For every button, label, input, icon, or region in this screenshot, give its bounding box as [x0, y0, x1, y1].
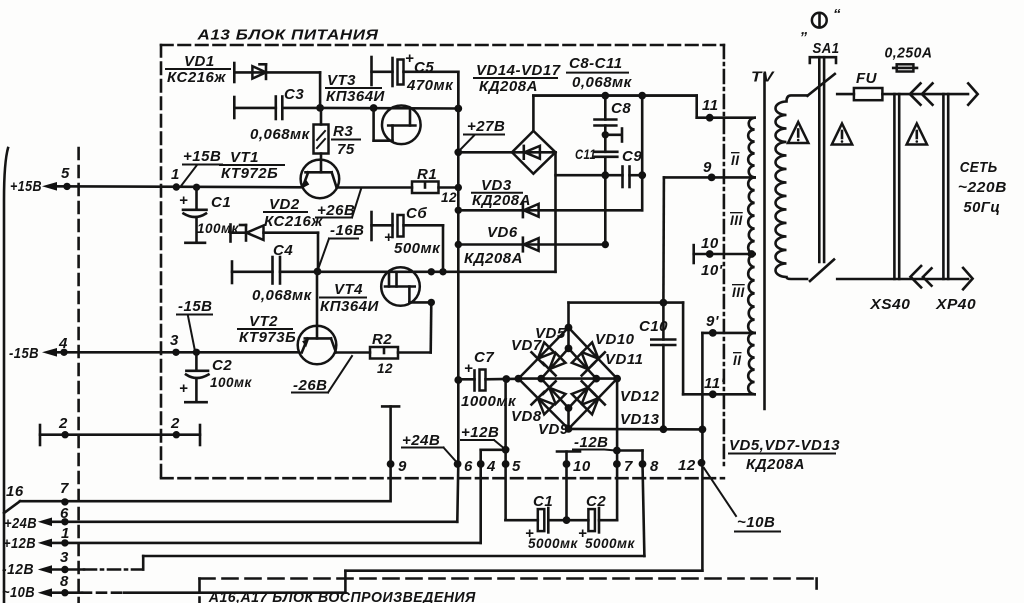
- resistor R3: [314, 125, 329, 154]
- svg-text:VD7: VD7: [511, 337, 542, 354]
- wire VD3 right riser: [641, 96, 644, 211]
- wire -15V rail: [50, 351, 299, 354]
- svg-text:9: 9: [398, 458, 407, 475]
- svg-text:7: 7: [60, 480, 69, 497]
- svg-text:12: 12: [441, 190, 457, 205]
- svg-text:16: 16: [6, 483, 24, 500]
- primary winding coil: [776, 95, 808, 279]
- svg-text:1: 1: [61, 525, 70, 542]
- wire line ~10V (pin 8): [50, 591, 82, 594]
- svg-text:-26В: -26В: [293, 377, 328, 394]
- svg-text:R3: R3: [333, 123, 353, 140]
- diode VD9 inner bottom-left: [543, 381, 567, 405]
- svg-text:СЕТЬ: СЕТЬ: [960, 159, 998, 176]
- svg-text:VТ1: VТ1: [230, 149, 259, 166]
- warning triangle 2: [832, 124, 852, 145]
- svg-text:C7: C7: [474, 349, 494, 366]
- svg-text:КТ973Б: КТ973Б: [239, 329, 296, 346]
- svg-text:4: 4: [486, 458, 496, 475]
- capacitor C1 5000mk: [538, 509, 545, 531]
- capacitor C4: [231, 262, 234, 284]
- svg-text:9: 9: [703, 159, 712, 176]
- svg-text:75: 75: [337, 141, 355, 158]
- wire bridge2 bottom: [569, 428, 703, 431]
- svg-text:7: 7: [624, 458, 633, 475]
- capacitor C9: [601, 171, 609, 179]
- node +27V: [454, 148, 462, 156]
- svg-text:2: 2: [170, 415, 180, 432]
- svg-text:R1: R1: [417, 166, 437, 183]
- svg-text:II: II: [731, 153, 740, 168]
- pin 11 path: [533, 94, 696, 97]
- svg-text:XP40: XP40: [935, 296, 976, 313]
- svg-text:VD11: VD11: [605, 351, 643, 368]
- svg-text:С11: С11: [575, 147, 596, 162]
- resistor R2: [336, 351, 370, 354]
- svg-text:~10В: ~10В: [737, 514, 775, 531]
- svg-text:C10: C10: [639, 318, 668, 335]
- svg-text:500мк: 500мк: [394, 240, 441, 257]
- bridge2 diagonals: [518, 377, 617, 380]
- svg-text:C2: C2: [212, 357, 232, 374]
- svg-text:C4: C4: [273, 242, 293, 259]
- svg-text:50Гц: 50Гц: [963, 199, 1000, 216]
- transistor VT1 KT972B: [301, 160, 340, 199]
- svg-text:C8: C8: [611, 100, 631, 117]
- svg-text:XS40: XS40: [869, 296, 910, 313]
- wire bridge1 top to C8 bus: [532, 96, 535, 131]
- svg-text:С8-С11: С8-С11: [569, 55, 623, 72]
- svg-text:FU: FU: [856, 70, 878, 87]
- svg-text:12: 12: [678, 457, 696, 474]
- zener VD2: [229, 225, 232, 242]
- diode VD3: [455, 207, 462, 214]
- svg-text:3: 3: [170, 332, 179, 349]
- svg-text:470мк: 470мк: [406, 77, 454, 94]
- node C8-C11 stub: [602, 131, 609, 138]
- wire 11' riser: [682, 303, 685, 395]
- svg-text:+: +: [464, 360, 473, 377]
- pin 9 stub: [382, 405, 399, 408]
- svg-text:C9: C9: [622, 148, 642, 165]
- pin 12: [701, 333, 704, 571]
- svg-text:+12В: +12В: [461, 424, 499, 441]
- resistor R1: [412, 182, 439, 194]
- svg-text:0,068мк: 0,068мк: [250, 126, 311, 143]
- svg-text:C5: C5: [414, 59, 434, 76]
- svg-text:0,068мк: 0,068мк: [252, 287, 313, 304]
- switch SA1 upper blade: [807, 74, 834, 96]
- pin 6: [454, 460, 462, 468]
- svg-text:-16В: -16В: [330, 222, 365, 239]
- svg-text:2: 2: [58, 415, 68, 432]
- svg-text:VD13: VD13: [620, 411, 660, 428]
- svg-text:КД208А: КД208А: [746, 456, 805, 473]
- pin 11' path: [683, 393, 755, 396]
- svg-text:6: 6: [60, 505, 69, 522]
- capacitor C11: [595, 151, 618, 154]
- arrow right bottom: [963, 268, 973, 289]
- svg-text:+24В: +24В: [402, 432, 440, 449]
- svg-text:9': 9': [706, 313, 719, 330]
- svg-text:SA1: SA1: [813, 40, 840, 57]
- svg-text:10: 10: [701, 235, 719, 252]
- transistor VT4 KP364I (FET): [381, 267, 420, 306]
- winding II lower (9p-11p): [748, 333, 754, 394]
- block A16,A17 dashed border: [200, 577, 817, 580]
- node C7 junction on main bus: [454, 376, 462, 384]
- capacitor C5: [370, 57, 373, 85]
- svg-text:~220В: ~220В: [958, 179, 1007, 196]
- svg-text:0,068мк: 0,068мк: [572, 74, 633, 91]
- svg-text:VD10: VD10: [595, 331, 635, 348]
- wire C1 C2 5000 line: [505, 519, 537, 522]
- svg-text:VD9: VD9: [538, 421, 569, 438]
- diode VD5 outer top-left: [531, 341, 555, 365]
- wire pins 2-2: [40, 433, 200, 436]
- warning triangle 1: [788, 122, 808, 143]
- wire +27V to bridge1: [458, 151, 512, 154]
- svg-text:6: 6: [464, 458, 473, 475]
- wire main vertical bus: [457, 72, 460, 464]
- svg-text:+27В: +27В: [467, 118, 505, 135]
- inner diamond: [541, 348, 596, 408]
- svg-text:III: III: [732, 285, 745, 300]
- svg-text:C3: C3: [284, 86, 304, 103]
- svg-text:1: 1: [171, 166, 180, 183]
- svg-text:VD2: VD2: [269, 196, 300, 213]
- label ~10V pointer: [704, 468, 736, 516]
- transformer core: [763, 74, 766, 409]
- diode VD13 outer bottom-right: [581, 392, 605, 416]
- capacitor C8: [601, 92, 609, 100]
- svg-text:VD5,VD7-VD13: VD5,VD7-VD13: [729, 437, 840, 454]
- capacitor C2: [195, 352, 198, 370]
- svg-text:C1: C1: [211, 194, 231, 211]
- svg-text:5000мк: 5000мк: [528, 536, 579, 551]
- svg-text:100мк: 100мк: [210, 375, 253, 390]
- switch SA1 power symbol: [812, 13, 827, 28]
- wire mid bus y=271.8: [318, 270, 556, 273]
- svg-text:“: “: [833, 6, 841, 23]
- svg-text:10: 10: [573, 458, 591, 475]
- left block dashed border: [77, 148, 80, 603]
- wire bridge2 top riser: [567, 303, 570, 328]
- wire line 7: [20, 500, 390, 503]
- diode VD7 inner top-left: [543, 351, 567, 375]
- node 3: [172, 349, 179, 356]
- pin 4: [479, 450, 482, 543]
- node C1 junction: [193, 184, 200, 191]
- svg-text:11: 11: [702, 97, 719, 114]
- left adjacent block edge: [4, 148, 8, 603]
- winding III (9-10p): [748, 177, 754, 254]
- wire line +24V (pin 6): [50, 520, 457, 523]
- svg-text:VD12: VD12: [620, 388, 660, 405]
- wire +15V rail: [50, 186, 303, 187]
- node VD2/C4/VT2 junction: [314, 268, 322, 276]
- svg-text:„: „: [800, 21, 809, 38]
- svg-text:1000мк: 1000мк: [461, 393, 517, 410]
- svg-text:C1: C1: [533, 493, 553, 510]
- svg-text:КП364И: КП364И: [320, 298, 380, 315]
- svg-text:VD14-VD17: VD14-VD17: [476, 62, 561, 79]
- svg-text:-15В: -15В: [178, 298, 213, 315]
- node 1: [173, 183, 180, 190]
- svg-text:КТ972Б: КТ972Б: [221, 165, 278, 182]
- svg-text:КД208А: КД208А: [472, 192, 531, 209]
- svg-text:~10В: ~10В: [2, 584, 35, 601]
- svg-text:КС216ж: КС216ж: [264, 213, 323, 230]
- svg-text:А13 БЛОК ПИТАНИЯ: А13 БЛОК ПИТАНИЯ: [196, 27, 379, 44]
- zener VD1: [233, 63, 236, 82]
- wire line -12V (pin 3): [50, 568, 84, 571]
- warning triangle 3: [907, 124, 927, 145]
- svg-text:8: 8: [60, 573, 69, 590]
- capacitor C6: [370, 212, 373, 240]
- svg-text:КД208А: КД208А: [464, 250, 523, 267]
- svg-text:C2: C2: [586, 493, 606, 510]
- svg-text:Сб: Сб: [406, 205, 427, 222]
- diode bridge VD14-VD17: [512, 131, 556, 174]
- winding III lower (10p-9p): [748, 254, 754, 333]
- switch SA1 lower blade: [810, 260, 834, 282]
- node -15V arrow: [42, 348, 57, 357]
- diode VD8 outer bottom-left: [531, 392, 555, 416]
- svg-text:10': 10': [701, 262, 723, 279]
- node 2 right: [173, 431, 180, 438]
- svg-text:КП364И: КП364И: [326, 88, 386, 105]
- diode VD11 inner top-right: [570, 351, 594, 375]
- svg-text:5: 5: [512, 458, 521, 475]
- wire line +12V (pin 1): [50, 542, 481, 545]
- svg-text:+12В: +12В: [3, 535, 36, 552]
- winding II (11-9): [748, 118, 754, 178]
- connector XS40 column: [893, 94, 896, 279]
- capacitor C1: [195, 187, 198, 209]
- svg-text:+: +: [179, 192, 188, 209]
- svg-text:5000мк: 5000мк: [585, 536, 636, 551]
- node 4: [60, 349, 67, 356]
- svg-text:+15В: +15В: [183, 148, 221, 165]
- svg-text:4: 4: [58, 335, 68, 352]
- pin 10 stub: [557, 450, 580, 453]
- pin 9 path: [664, 176, 755, 179]
- capacitor C2 5000mk: [567, 519, 589, 522]
- svg-text:11': 11': [704, 375, 725, 392]
- svg-text:8: 8: [650, 458, 659, 475]
- svg-text:+15В: +15В: [10, 178, 42, 195]
- arrow right top: [968, 83, 978, 104]
- A13 block dashed border: [161, 44, 724, 47]
- svg-text:+: +: [405, 50, 414, 67]
- node 2 left: [61, 431, 68, 438]
- pin 5: [504, 379, 507, 520]
- capacitor C3: [233, 97, 236, 118]
- diode bridge VD5,VD7-VD13 outer diamond: [518, 328, 617, 429]
- svg-text:+: +: [179, 380, 188, 397]
- switch SA1 bracket and linkage: [810, 57, 836, 63]
- svg-text:-15В: -15В: [9, 345, 39, 362]
- node C2 junction: [193, 349, 200, 356]
- svg-text:VТ3: VТ3: [327, 72, 356, 89]
- svg-text:12: 12: [377, 361, 393, 376]
- bridge2 corner nodes: [515, 375, 523, 383]
- node 7: [61, 498, 68, 505]
- pin 8: [617, 449, 643, 452]
- capacitor C7: [458, 378, 474, 381]
- node 5: [63, 183, 70, 190]
- node +15V arrow: [42, 182, 57, 191]
- diode VD6: [455, 241, 462, 248]
- svg-text:КС216ж: КС216ж: [167, 69, 226, 86]
- connector chevrons top: [910, 83, 921, 104]
- transistor VT3 KP364I (FET): [382, 106, 421, 145]
- diode VD10 outer top-right: [581, 341, 605, 365]
- svg-text:-12В: -12В: [2, 561, 34, 578]
- transistor VT2 KT973B: [316, 272, 319, 339]
- node C3/VD1 junction: [316, 104, 324, 112]
- svg-text:R2: R2: [372, 331, 392, 348]
- svg-text:0,250А: 0,250А: [885, 45, 933, 62]
- diode VD12 inner bottom-right: [570, 381, 594, 405]
- svg-text:+: +: [384, 229, 393, 246]
- svg-text:VТ2: VТ2: [249, 313, 278, 330]
- pin 7: [616, 379, 619, 520]
- connector chevrons bottom: [911, 266, 922, 287]
- svg-text:3: 3: [60, 549, 69, 566]
- svg-text:VТ4: VТ4: [334, 281, 363, 298]
- fuse FU: [854, 88, 883, 100]
- svg-text:III: III: [730, 213, 743, 228]
- wire to fuse: [837, 93, 854, 96]
- wire VT1 collector to R1: [337, 186, 412, 189]
- svg-text:5: 5: [61, 165, 70, 182]
- svg-text:II: II: [733, 353, 742, 368]
- svg-text:VD1: VD1: [184, 53, 215, 70]
- bridge2 diodes (8x): [531, 341, 604, 416]
- svg-text:А16,А17 БЛОК ВОСПРОИЗВЕДЕНИЯ: А16,А17 БЛОК ВОСПРОИЗВЕДЕНИЯ: [208, 589, 476, 603]
- pin 9' path: [702, 332, 754, 335]
- wire gate bus to VT3: [320, 107, 458, 110]
- connector XP40 column: [942, 94, 945, 279]
- svg-text:VD6: VD6: [487, 224, 518, 241]
- svg-text:КД208А: КД208А: [479, 78, 538, 95]
- capacitor C10: [660, 299, 668, 307]
- pin 10/10' stub: [692, 245, 695, 263]
- svg-text:+24В: +24В: [4, 515, 37, 532]
